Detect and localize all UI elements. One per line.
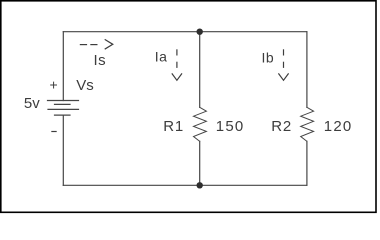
current arrow Ib <box>278 49 288 80</box>
svg-text:R1: R1 <box>163 118 184 135</box>
svg-text:+: + <box>50 77 58 93</box>
wire right lower <box>306 141 308 185</box>
svg-text:Ib: Ib <box>262 49 275 65</box>
svg-text:150: 150 <box>216 118 245 135</box>
resistor R2 120 <box>301 107 314 141</box>
battery Vs 5v <box>48 101 79 116</box>
svg-text:R2: R2 <box>271 118 292 135</box>
current arrow Ia <box>172 49 182 80</box>
wire right upper <box>306 32 308 108</box>
current arrow Is <box>80 39 113 49</box>
wire left lower <box>62 115 64 185</box>
svg-text:Is: Is <box>94 52 107 69</box>
svg-text:120: 120 <box>324 118 353 135</box>
resistor R1 150 <box>194 107 207 141</box>
wire middle upper <box>199 32 201 108</box>
svg-text:Vs: Vs <box>76 77 94 94</box>
wire bottom <box>63 184 307 186</box>
svg-text:Ia: Ia <box>155 49 168 65</box>
svg-text:5v: 5v <box>24 95 40 112</box>
wire middle lower <box>199 141 201 185</box>
wire top <box>63 31 307 33</box>
node bottom junction <box>197 182 203 188</box>
label minus <box>51 131 56 133</box>
wire left upper <box>62 32 64 101</box>
node top junction <box>197 29 203 35</box>
